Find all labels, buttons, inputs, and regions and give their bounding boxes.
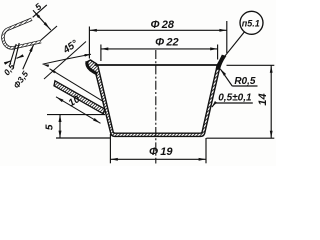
dimension dia28 [88,27,90,59]
svg-text:Φ 28: Φ 28 [150,19,174,31]
balloon p5.1 [240,11,263,34]
flange-parallel reference line [50,69,104,102]
svg-text:14: 14 [257,93,269,105]
svg-text:Φ 19: Φ 19 [149,146,173,158]
dimension 10 along flange [56,97,101,124]
bent flange strip (left, hatched) [54,81,105,114]
dimension 5 left [47,114,105,116]
leader 0,5 pm 0,1 wall thickness [215,102,253,104]
svg-text:п5.1: п5.1 [242,19,260,29]
dimension 14 [227,64,275,66]
rim far-edge line [95,64,219,66]
dimension 5 detail [33,5,47,17]
detail: curled edge (hairpin) [3,19,41,48]
angle 45deg [44,42,86,80]
svg-text:Φ 22: Φ 22 [155,36,178,48]
centerline [155,50,157,164]
svg-text:5: 5 [44,124,55,130]
dimension 0,5 detail [10,44,16,65]
dimension dia19 [109,134,111,163]
leader dia3,5 detail [23,45,34,70]
dimension dia22 [100,45,102,62]
cup body section (hatched sheet-metal profile) [87,56,225,137]
svg-text:0,5±0,1: 0,5±0,1 [218,92,252,103]
svg-text:R0,5: R0,5 [234,76,256,87]
leader R0,5 [232,85,257,87]
right lip flare [217,56,224,69]
left lip curl [87,61,97,74]
